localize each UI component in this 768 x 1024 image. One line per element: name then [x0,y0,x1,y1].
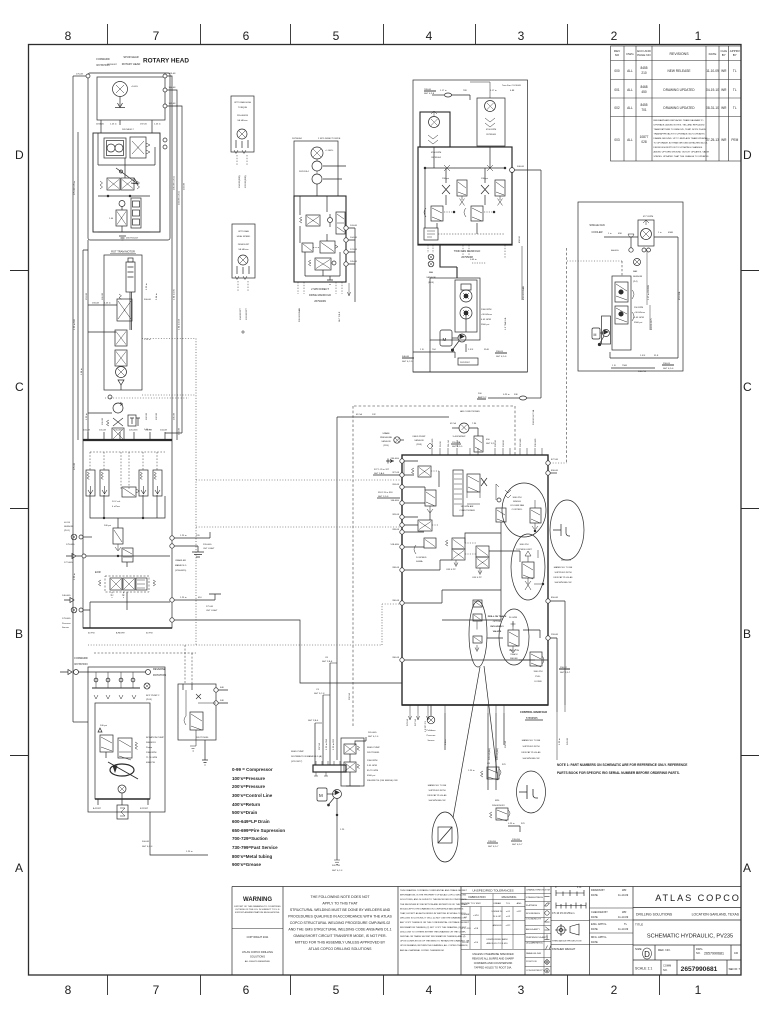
sf rotated labels [648,285,681,330]
2spd labels top [292,138,341,140]
svg-text:ADDED UPTURN GROUND OUTLET UPD: ADDED UPTURN GROUND OUTLET UPDATES. VALV… [654,151,710,154]
svg-text:028: 028 [641,140,647,144]
internal relief IR1 [425,490,436,506]
svg-text:8: 8 [65,983,72,997]
svg-text:210: 210 [641,71,647,75]
svg-text:764: 764 [432,349,436,351]
solenoid pair SP2 [476,546,489,557]
svg-text:11-10-09: 11-10-09 [618,893,629,897]
svg-text:1.25 in: 1.25 in [468,770,475,772]
svg-text:SENSOR: SENSOR [414,440,424,442]
svg-text:OUTSIDE OF THE U.S. IS SUBJECT: OUTSIDE OF THE U.S. IS SUBJECT TO U.S. [235,909,280,911]
svg-text:1.04: 1.04 [109,218,114,220]
svg-text:TRAM APPROACH TO UPGRADE. B471: TRAM APPROACH TO UPGRADE. B471 UPDATES [654,133,706,136]
svg-text:1 in: 1 in [608,233,612,235]
characteristics symbol table [525,887,551,976]
svg-text:SHT 4,C-5: SHT 4,C-5 [402,361,413,363]
svg-text:179-06G: 179-06G [66,544,75,546]
svg-text:86035-0675: 86035-0675 [651,318,653,330]
svg-text:1.25 in 303: 1.25 in 303 [333,738,335,750]
svg-text:M: M [443,337,447,342]
svg-text:4.03 GPM: 4.03 GPM [481,319,491,321]
svg-text:648: 648 [220,687,224,689]
svg-text:900's=Grease: 900's=Grease [232,862,261,867]
fan motor F2 [477,98,505,146]
svg-text:11-13-09: 11-13-09 [618,927,629,931]
control manifold label [520,710,547,720]
svg-text:175-08: 175-08 [76,74,84,76]
svg-text:TL: TL [624,922,628,926]
svg-text:ROTATION: ROTATION [74,662,87,666]
bus wire [98,195,150,197]
svg-text:SHT 4,C-4: SHT 4,C-4 [368,736,379,738]
svg-text:338-08: 338-08 [392,567,400,569]
svg-text:1.04 in 104: 1.04 in 104 [179,318,181,330]
compensator valve [118,738,132,758]
svg-text:0.25 in: 0.25 in [503,394,510,396]
svg-text:A: A [15,861,23,875]
svg-text:26504200XX: 26504200XX [492,805,505,807]
svg-text:±1/4: ±1/4 [474,942,479,944]
valve in ellipse C [522,562,534,578]
svg-text:TAPPED HOLES TO ROOT DIA.: TAPPED HOLES TO ROOT DIA. [474,966,512,970]
title block main [633,908,741,976]
svg-text:CHT LIGHT: CHT LIGHT [203,548,215,550]
svg-text:1 OF 7: 1 OF 7 [731,967,741,971]
wire feed left [73,75,88,77]
valve SD [315,258,331,270]
svg-text:1.25 in: 1.25 in [86,413,88,420]
svg-text:1.17 in 26030M: 1.17 in 26030M [648,285,650,300]
svg-text:Pressure: Pressure [427,734,437,737]
hatch valve stack AC2 [453,470,463,516]
dashed rail 566 [566,248,568,463]
svg-text:2657770080: 2657770080 [196,737,209,739]
sf pump stack [612,276,631,350]
supply line w orifice [488,397,519,399]
svg-text:7: 7 [153,983,160,997]
svg-text:FORWARD: FORWARD [74,656,87,660]
svg-text:1.25 in: 1.25 in [559,738,561,745]
svg-text:3146: 3146 [484,349,490,351]
aux check X [196,694,201,699]
svg-text:146-06G: 146-06G [62,595,71,597]
zone letters left [15,148,24,875]
svg-text:SHT 4,D-7: SHT 4,D-7 [488,846,499,848]
svg-text:C: C [743,380,752,394]
cross wires [98,133,155,178]
svg-text:26704097: 26704097 [107,64,118,66]
crawler manifold label [175,559,187,572]
svg-text:PERPENDICULARITY: PERPENDICULARITY [526,936,549,939]
sf feed wire [604,236,638,238]
svg-text:PEM: PEM [731,138,738,142]
svg-text:518-08G: 518-08G [390,544,399,546]
svg-text:STATES. UPDATED THAT THE CHANG: STATES. UPDATED THAT THE CHANGE TO UPDAT… [654,155,710,158]
svg-text:200: 200 [478,393,482,395]
seq valve SB [336,212,345,234]
bottom port stubs [410,705,504,713]
dashed drop lines to aux block [94,645,196,684]
check CB [328,218,333,223]
svg-text:2650DF437: 2650DF437 [238,244,250,246]
svg-text:CONTROL MANIFOLD: CONTROL MANIFOLD [520,710,547,714]
svg-text:4700 RPM: 4700 RPM [486,129,497,131]
svg-text:2300 RPM: 2300 RPM [481,309,492,311]
rotary motor M1 [113,82,128,97]
svg-text:300-06: 300-06 [495,439,497,447]
svg-text:4700 RPM: 4700 RPM [431,152,442,154]
feed pump distribution manifold label [291,751,322,763]
svg-text:2300 RPM: 2300 RPM [146,752,157,754]
svg-text:220-06G: 220-06G [203,544,212,546]
cartridge CV2 [100,470,109,496]
svg-text:2657990681: 2657990681 [704,952,724,956]
svg-text:SHT 2,B-4: SHT 2,B-4 [308,720,319,722]
svg-text:417-A: 417-A [356,413,362,416]
svg-text:1.25 in: 1.25 in [180,535,187,537]
svg-text:ANY COPY THEREOF OR THE CONFID: ANY COPY THEREOF OR THE CONFIDENTIAL OR … [400,921,470,924]
svg-text:ATLAS COPCO DRILLING SOLUTIONS: ATLAS COPCO DRILLING SOLUTIONS [309,947,373,951]
wi bottom label [458,358,478,365]
svg-text:SENSOR: SENSOR [64,526,74,528]
svg-text:OPTIONAL HIGH: OPTIONAL HIGH [234,101,251,104]
svg-text:DENTIAL OR TRADE SECRET INFORM: DENTIAL OR TRADE SECRET INFORMATION THER… [400,935,466,938]
svg-text:REF. NO.: REF. NO. [658,948,671,952]
svg-text:2 SPD DIRECT: 2 SPD DIRECT [311,287,329,291]
wires inside twin manifold [425,147,490,234]
svg-text:±1/2°: ±1/2° [505,925,510,927]
svg-text:57656565: 57656565 [526,716,538,720]
svg-text:220-06G: 220-06G [129,430,138,432]
svg-text:SHOWN BELOW: SHOWN BELOW [555,582,573,584]
svg-text:1.25 in: 1.25 in [180,597,187,599]
tank T2 [327,276,333,284]
svg-text:200's=Pressure: 200's=Pressure [232,784,265,789]
bus wires [90,494,165,518]
solenoid valve SA [306,215,320,226]
valve in ellipse A [530,508,541,523]
svg-text:COPYRIGHT 2011: COPYRIGHT 2011 [247,935,269,939]
svg-text:518-06G: 518-06G [432,438,434,447]
svg-text:MANIFOLD: MANIFOLD [175,564,187,567]
svg-text:1.25 in: 1.25 in [146,283,148,290]
feed manifold bar [313,765,346,772]
cartridge valve C1 [116,210,127,226]
pull down valve PD [530,652,542,666]
svg-text:500's=Drain: 500's=Drain [232,810,257,815]
svg-text:DRIVE MANIFOLD: DRIVE MANIFOLD [309,293,331,297]
svg-text:0-99 = Compressor: 0-99 = Compressor [232,767,273,772]
svg-text:280-06G: 280-06G [390,458,399,460]
rotation pump block [88,667,165,812]
svg-text:7.94: 7.94 [472,423,477,425]
svg-text:COPCO STRUCTURAL WELDING PROCE: COPCO STRUCTURAL WELDING PROCEDURE CMP/A… [290,921,391,925]
svg-text:DRILLING SOLUTIONS: DRILLING SOLUTIONS [636,913,673,917]
svg-text:548: 548 [220,700,224,702]
svg-text:26795004: 26795004 [431,157,442,159]
svg-text:MANIFOLD TO BE: MANIFOLD TO BE [554,566,573,569]
svg-text:789: 789 [463,90,467,92]
svg-text:FEED PUMP: FEED PUMP [367,747,380,749]
svg-text:5: 5 [333,983,340,997]
sf pump sub [602,316,611,344]
svg-text:PAGE NO: PAGE NO [637,53,651,57]
svg-text:M: M [319,793,323,798]
shuttle ball S1 [119,201,125,207]
svg-text:ANGLES: ANGLES [493,924,502,927]
svg-text:ALL: ALL [627,106,633,110]
svg-text:STRUCTURAL WELDING MUST BE DON: STRUCTURAL WELDING MUST BE DONE BY WELDE… [290,908,391,912]
sht ref labels left [374,469,393,498]
svg-text:877-08: 877-08 [551,459,559,461]
spring valve SR2 [495,180,505,196]
svg-text:700-729=Suction: 700-729=Suction [232,836,268,841]
svg-text:36 GPM: 36 GPM [509,617,517,619]
svg-text:800's=Metal tubing: 800's=Metal tubing [232,854,272,859]
svg-text:259-08: 259-08 [551,634,559,636]
svg-text:502-760: 502-760 [332,865,341,867]
svg-text:FEED PUMP: FEED PUMP [291,751,304,753]
rot sensor [144,683,150,689]
zone tick right [741,271,759,756]
svg-text:CONDITIONER: CONDITIONER [459,510,475,512]
svg-text:DRAWING UPDATED: DRAWING UPDATED [663,88,695,92]
svg-text:WR: WR [721,106,727,110]
svg-text:SHOWN BELOW: SHOWN BELOW [429,800,447,802]
svg-text:60 PSI: 60 PSI [146,633,153,635]
svg-text:A: A [743,861,751,875]
dashed pilot rail [352,406,354,728]
svg-text:AND THE GMS STRUCTURAL WELDING: AND THE GMS STRUCTURAL WELDING CODE ANSI… [288,928,391,932]
svg-text:396-899 PSI (240 SENSE) OFF: 396-899 PSI (240 SENSE) OFF [367,780,399,782]
svg-text:271-08: 271-08 [206,606,214,608]
svg-text:4.03 GPM: 4.03 GPM [634,317,644,319]
svg-text:TL: TL [733,106,737,110]
svg-text:7: 7 [153,29,160,43]
svg-text:ROT TRAM MOTOR: ROT TRAM MOTOR [111,250,135,254]
svg-text:TL: TL [733,88,737,92]
svg-text:NO.: NO. [663,968,668,972]
svg-text:1.5 N: 1.5 N [640,355,646,357]
dotted pilot line A [142,338,196,340]
svg-text:334-06: 334-06 [503,439,505,447]
HOB sensor label [64,522,74,532]
svg-text:11-10-09: 11-10-09 [706,69,719,73]
check row [92,687,140,689]
dotted pilot line C [142,394,196,396]
brake stack B1 [131,198,141,228]
feed pump spec [367,747,399,782]
speed motor MS [238,255,248,265]
svg-text:OPTION: OPTION [493,621,502,623]
feed pump valve box [341,738,364,786]
optional high torque box [231,96,254,152]
svg-text:101-08: 101-08 [102,417,104,425]
drop to tank [336,799,338,861]
svg-text:ENG. APPVL.: ENG. APPVL. [591,922,607,926]
svg-text:103-08: 103-08 [83,430,91,432]
svg-text:3000 PSI: 3000 PSI [520,544,529,546]
svg-text:103-08 OPT: 103-08 OPT [246,307,248,320]
svg-text:24: 24 [464,917,467,919]
pulldown pressure sensor [430,705,432,716]
svg-text:(P.05): (P.05) [428,282,434,284]
svg-text:4A-06G: 4A-06G [611,249,619,252]
main relief MR1 [117,518,119,528]
wi bottom wires [413,352,455,358]
svg-text:ROTATION: ROTATION [153,673,166,677]
svg-text:APPLY TO THIS THAT: APPLY TO THIS THAT [322,902,358,906]
svg-text:DRAWN BY: DRAWN BY [591,888,605,892]
filter detail ellipse [432,812,458,862]
ellipse detail B diffcat plug [550,500,584,560]
svg-text:0.25 in: 0.25 in [508,823,515,825]
manifold top port stubs [432,448,542,455]
svg-text:104-08 1.25 in: 104-08 1.25 in [179,190,181,205]
svg-text:+30 HDrive: +30 HDrive [481,313,493,316]
svg-text:104-08 (MM): 104-08 (MM) [239,175,241,188]
case drain CD [118,785,126,793]
wire 261 [355,737,366,745]
svg-text:AIR CONDITIONED: AIR CONDITIONED [460,410,480,413]
internal valve group IS2 [418,520,432,531]
motor case drain labels [144,299,152,431]
svg-text:WR: WR [721,138,727,142]
svg-text:THIS DRAWING CONTAINS CONFIDEN: THIS DRAWING CONTAINS CONFIDENTIAL AND T… [400,889,468,892]
swing check Q1 [113,403,123,413]
svg-text:SINGLE: SINGLE [513,501,522,503]
svg-text:500-06: 500-06 [144,299,152,301]
svg-text:CHECKED BY: CHECKED BY [591,910,608,914]
svg-text:EXPORT ADMINISTRATION REGULATI: EXPORT ADMINISTRATION REGULATIONS. [235,911,280,914]
svg-text:500-08: 500-08 [142,841,150,843]
relief X2 [481,185,489,194]
svg-text:104-08: 104-08 [160,430,168,432]
svg-text:FINISHED WEIGHT: FINISHED WEIGHT [552,947,576,951]
svg-text:COMM: COMM [663,964,671,968]
svg-text:PARTS BOOK FOR SPECIFIC RIG SE: PARTS BOOK FOR SPECIFIC RIG SERIAL NUMBE… [557,771,680,775]
svg-text:B: B [15,627,23,641]
dotted pilot to sf [567,260,622,262]
feed valve FV2 [344,762,356,772]
drill on track ellipse D [469,601,487,667]
port 508-08 [510,168,515,173]
svg-text:H.O.B: H.O.B [64,522,70,524]
svg-text:±.01: ±.01 [506,911,511,913]
svg-text:4771 RPM: 4771 RPM [643,216,654,218]
svg-text:NO: NO [615,53,620,57]
svg-text:4500 psi: 4500 psi [367,775,376,777]
svg-text:SHT 4,D-6: SHT 4,D-6 [496,356,507,358]
svg-text:TO UPGRADE. AT TRAM GROUND ATT: TO UPGRADE. AT TRAM GROUND ATTACHED ACCS… [654,142,709,145]
tram valve T1 [117,299,132,321]
long wire to center [170,618,174,622]
port 175-08 [86,74,90,78]
optional high speed box [232,224,255,278]
svg-text:336-08: 336-08 [392,657,400,659]
svg-text:600-649=LP Drain: 600-649=LP Drain [232,819,270,824]
svg-text:192-08: 192-08 [146,412,148,420]
svg-text:327-08: 327-08 [392,472,400,474]
svg-text:CD: CD [734,951,739,955]
svg-text:UNSPECIFIED TOLERANCES: UNSPECIFIED TOLERANCES [472,889,513,893]
side ports 2spd [344,226,348,230]
svg-text:159-08: 159-08 [92,303,100,305]
big plug detail ellipse [517,771,546,813]
cartridge CV1 [86,470,95,496]
svg-text:SOLUTIONS: SOLUTIONS [250,955,265,959]
manifold supplied text mid [427,784,447,802]
svg-text:1194-05: 1194-05 [96,124,105,126]
dotted pilot line D [196,479,402,481]
svg-text:4 in³/rev: 4 in³/rev [112,505,121,508]
svg-text:500-06 DRAIN: 500-06 DRAIN [298,307,301,322]
3 valves in ellipse D [473,600,482,607]
svg-text:SHT 3,D: SHT 3,D [486,443,495,445]
svg-text:Twin Fan COOLER: Twin Fan COOLER [502,85,521,87]
zone numbers bottom [65,983,702,997]
ellipse detail A single cooler fan control [502,483,546,537]
gear pump G1 [104,138,126,158]
svg-text:MITTED FOR THIS ASSEMBLY UNLES: MITTED FOR THIS ASSEMBLY UNLESS APPROVED… [295,941,386,945]
svg-text:STRAIGHTNESS: STRAIGHTNESS [526,896,544,899]
svg-text:220: 220 [196,535,200,537]
svg-text:177-06G: 177-06G [64,562,73,564]
svg-text:FEED PUMP: FEED PUMP [413,436,426,438]
hose legend list [232,767,285,867]
svg-text:104-08: 104-08 [179,427,181,435]
svg-text:302-04: 302-04 [505,740,507,748]
svg-text:536: 536 [514,394,518,396]
svg-text:Sensor: Sensor [62,626,69,629]
svg-text:4: 4 [426,29,433,43]
svg-text:8468: 8468 [640,85,647,89]
svg-text:DRAWING UPDATED: DRAWING UPDATED [663,106,695,110]
svg-text:3: 3 [518,983,525,997]
svg-text:D: D [15,148,24,162]
fan sensors [428,245,433,253]
sf bottom labels [640,355,674,370]
svg-text:003: 003 [614,138,620,142]
manifold bottom rail [402,704,548,706]
svg-text:MANIFOLD TO BE: MANIFOLD TO BE [522,739,541,742]
svg-text:318-08: 318-08 [392,484,400,486]
rotary head valve body [93,133,160,232]
fan motor F1 [420,112,450,147]
twin fan cooler enclosure [413,80,528,372]
svg-text:D: D [743,148,752,162]
svg-text:120 UP: 120 UP [462,942,470,944]
svg-text:220-06G: 220-06G [114,430,123,432]
svg-text:±1/16: ±1/16 [473,915,479,917]
relief ellipse E [499,609,529,665]
svg-text:508-08: 508-08 [517,166,525,168]
rail 355 from 2spd ports [348,228,355,302]
svg-text:LOCATION GARLAND, TEXAS: LOCATION GARLAND, TEXAS [692,913,740,917]
svg-text:31.8: 31.8 [654,355,659,357]
svg-text:WARNING: WARNING [243,897,272,903]
svg-text:NO.: NO. [696,951,701,955]
torque motor MT [237,129,247,139]
svg-text:970: 970 [502,764,506,766]
svg-text:LINEAR: LINEAR [493,902,501,905]
svg-text:000: 000 [614,69,620,73]
svg-text:UNLESS OTHERWISE SPECIFIED: UNLESS OTHERWISE SPECIFIED [472,952,513,956]
pressure comp PC1 [122,548,133,562]
svg-text:C: C [15,380,24,394]
label forward rotation 2 [74,656,87,666]
